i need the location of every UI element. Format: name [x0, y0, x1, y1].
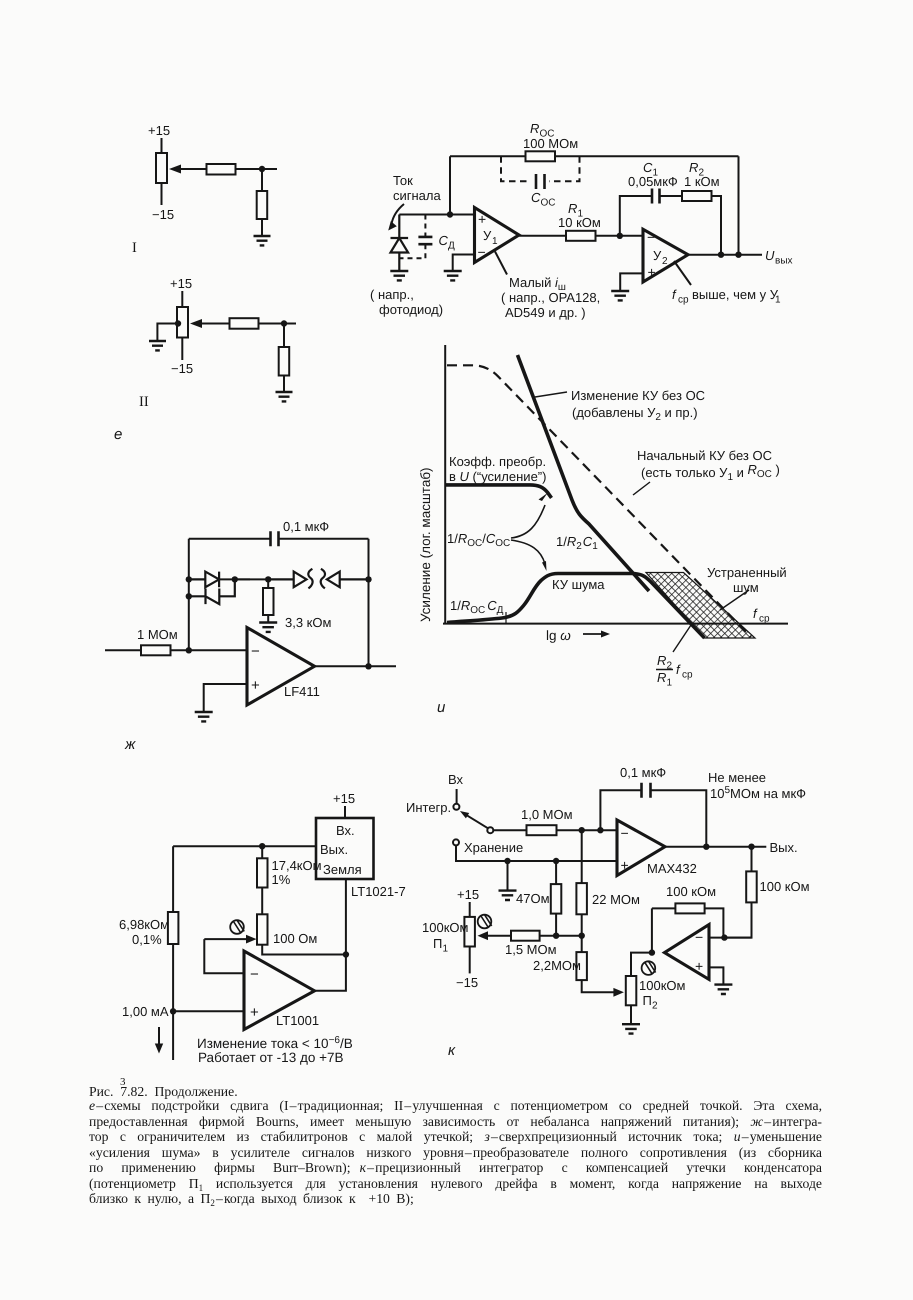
pointer line R2/R1 fcp [673, 625, 691, 652]
svg-text:Коэфф. преобр.: Коэфф. преобр. [449, 454, 546, 469]
svg-text:−: − [695, 929, 703, 945]
svg-text:Вых.: Вых. [320, 842, 348, 857]
switch arm with arrow [466, 815, 488, 828]
wire feedback cap up [600, 790, 641, 830]
wire pot bottom (e-II) [181, 338, 183, 361]
label Cd [439, 233, 456, 252]
resistor (e-I horizontal) [207, 164, 236, 175]
svg-text:3,3 кОм: 3,3 кОм [285, 615, 331, 630]
svg-text:−15: −15 [171, 361, 193, 376]
pointer line Nachalny [633, 482, 650, 495]
svg-text:C: C [531, 190, 541, 205]
svg-text:10 кОм: 10 кОм [558, 215, 601, 230]
svg-text:П: П [643, 993, 652, 1008]
LT1001 plus input [250, 1004, 259, 1021]
ground left (e-II) [149, 341, 166, 350]
wire P2 bottom to ground [630, 1005, 632, 1024]
resistor (e-II vertical) [279, 347, 290, 376]
node dot row 47 [553, 933, 559, 939]
svg-text:1%: 1% [272, 872, 291, 887]
cap top wire right [279, 538, 369, 540]
label Ne menee [708, 770, 806, 801]
wire tap to left ground (e-II) [157, 324, 178, 342]
svg-text:II: II [139, 394, 149, 410]
resistor 6.98 kOm [168, 912, 179, 944]
svg-text:+: + [251, 677, 260, 694]
wire +15 to pot I [161, 138, 163, 153]
svg-text:100кОм: 100кОм [422, 920, 468, 935]
svg-text:+: + [695, 958, 703, 974]
resistor 47 Om [551, 884, 562, 914]
label 0.1 mkF zh [283, 519, 329, 534]
wire C1 to R2 [660, 195, 683, 197]
svg-text:LF411: LF411 [284, 684, 320, 699]
wire resistor to node (e-II) [259, 323, 297, 325]
wire wiper to minus input [204, 939, 244, 973]
wire R2 down to output [712, 196, 722, 255]
wire 17.4k from node [261, 846, 263, 858]
svg-text:R: R [657, 653, 666, 668]
svg-text:Устраненный: Устраненный [707, 565, 787, 580]
node dot output cap join [703, 844, 709, 850]
pointer line Ustranenny [720, 590, 749, 610]
label Coc [531, 190, 556, 209]
wire node down (e-II) [283, 324, 285, 348]
svg-text:2: 2 [662, 256, 668, 267]
terminal Integr (open circle) [453, 804, 459, 810]
label k [448, 1042, 456, 1059]
left rail lower [172, 944, 174, 1060]
zener Z1 [268, 572, 306, 588]
right vertical feedback wire [368, 539, 370, 667]
svg-text:1,0 МОм: 1,0 МОм [521, 807, 573, 822]
node dot inverter output [649, 949, 655, 955]
svg-text:е: е [114, 426, 122, 443]
wire ground stub [507, 861, 509, 891]
input wire [105, 649, 141, 651]
ground photodiode [390, 271, 408, 280]
resistor R1 [566, 231, 596, 241]
node dot output 100k join [748, 844, 754, 850]
svg-text:Начальный КУ без ОС: Начальный КУ без ОС [637, 448, 772, 463]
voltage reference box LT1021-7 [316, 818, 374, 879]
knee tick [505, 612, 507, 624]
label i [437, 699, 446, 716]
svg-text:0,05мкФ: 0,05мкФ [628, 174, 678, 189]
svg-text:−: − [478, 244, 486, 260]
label +15 (P1) [457, 887, 479, 902]
wire to ground (e-II) [283, 376, 285, 393]
svg-text:ср: ср [678, 295, 689, 306]
ground U2 [611, 291, 629, 300]
inverter plus input [695, 958, 703, 974]
svg-text:I: I [132, 240, 137, 256]
svg-text:R: R [689, 160, 698, 175]
wire +15 to pot II [181, 291, 183, 307]
wire feedback up from output [651, 908, 653, 952]
potentiometer P2 [626, 976, 637, 1005]
label 1.0 MOm [521, 807, 573, 822]
wire 3.3k to ground [267, 615, 269, 623]
svg-text:+: + [648, 264, 656, 280]
svg-text:Работает от -13 до +7В: Работает от -13 до +7В [198, 1050, 343, 1065]
wire box Vyh to left rail [173, 845, 316, 847]
wiper arrow (e-II) [193, 323, 229, 325]
U3 minus input [251, 643, 260, 660]
label Izmenenie toka [197, 1035, 353, 1065]
wire MAX432 output [665, 846, 766, 848]
svg-text:+15: +15 [170, 276, 192, 291]
svg-text:1 кОм: 1 кОм [684, 174, 720, 189]
label +15 (e-II) [170, 276, 192, 291]
label C1 [628, 160, 678, 189]
mid tap node dot (e-II) [175, 320, 181, 326]
potentiometer P1 [464, 917, 475, 947]
wire R to MAX432 [557, 829, 618, 831]
wire 47Om top [555, 861, 557, 884]
wire P2 top to inverter output [631, 953, 652, 976]
svg-text:C: C [439, 233, 449, 248]
dashed open-loop gain curve [447, 365, 751, 637]
wire top rail right [555, 155, 739, 157]
node dot ground stub [504, 858, 510, 864]
svg-text:ср: ср [682, 670, 693, 681]
wire U1 output to R1 [519, 235, 566, 237]
svg-text:Ток: Ток [393, 173, 413, 188]
svg-text:−: − [647, 229, 655, 245]
svg-text:+15: +15 [148, 123, 170, 138]
resistor R2 [682, 191, 712, 201]
label Maliy ish [501, 275, 600, 320]
label U1 [483, 228, 498, 247]
pointer line fcp [674, 261, 691, 285]
ground 3.3k [259, 623, 277, 632]
svg-text:100 кОм: 100 кОм [760, 879, 810, 894]
svg-text:1: 1 [775, 295, 781, 306]
node dot 17.4k top [259, 843, 265, 849]
wire +15 to box [344, 806, 346, 818]
label Vyh [770, 840, 798, 855]
svg-text:1 МОм: 1 МОм [137, 627, 178, 642]
wire input node to opamp U1 [399, 214, 474, 216]
svg-text:Вых.: Вых. [770, 840, 798, 855]
label photodiode [370, 287, 443, 317]
label -15 (P1) [456, 975, 478, 990]
left rail upper [172, 846, 174, 912]
ground (inverter) [714, 985, 732, 994]
svg-text:Хранение: Хранение [464, 840, 523, 855]
wire 22MOm [581, 830, 583, 883]
svg-text:+: + [478, 211, 486, 227]
node dot inverter minus [721, 934, 727, 940]
node dot cap branch [597, 827, 603, 833]
dashed capacitor Cd [424, 215, 426, 237]
label 100kOm P2 [639, 978, 685, 1012]
label Ustranenny shum [707, 565, 787, 595]
wire feedback top left [652, 907, 676, 909]
label 1.5 MOm [505, 942, 557, 957]
svg-text:LT1001: LT1001 [276, 1013, 319, 1028]
label 0.1 mkF (k) [620, 765, 666, 780]
y axis [444, 345, 446, 624]
node dot diode lower stub [186, 593, 192, 599]
label R2 [684, 160, 720, 189]
node dot zemlya join [343, 951, 349, 957]
svg-text:в U (“усиление”): в U (“усиление”) [449, 469, 546, 484]
label KU shuma [552, 577, 605, 592]
svg-text:0,1 мкФ: 0,1 мкФ [283, 519, 329, 534]
node dot diode row left [186, 576, 192, 582]
svg-text:−: − [621, 825, 629, 841]
svg-text:У: У [483, 228, 492, 243]
wiper arrow P2 [614, 991, 616, 993]
node dot plus input [170, 1008, 176, 1014]
wire U2 output [688, 254, 762, 256]
label Integr [406, 800, 451, 815]
wire +15 to P1 [469, 902, 471, 917]
wire output down [751, 847, 753, 872]
label 1/R2C1 [556, 534, 598, 552]
label LT1021-7 [351, 884, 406, 899]
wire R1 to U2 [596, 235, 644, 237]
label U2 [653, 248, 668, 267]
svg-text:−15: −15 [456, 975, 478, 990]
dashed box left (Coc) [501, 156, 531, 181]
trimmer screw symbol (z) [230, 920, 244, 934]
wire inverter plus to ground [709, 967, 723, 984]
wire D1 to node [219, 578, 250, 580]
node dot zh input [186, 647, 192, 653]
svg-text:Вх: Вх [448, 772, 464, 787]
wire plus input [173, 1010, 244, 1012]
thick modified gain curve [518, 355, 650, 591]
wire 100k to inverter minus [724, 902, 751, 937]
node dot right vertical diode row [365, 576, 371, 582]
svg-text:( напр., OPA128,: ( напр., OPA128, [501, 290, 600, 305]
label LF411 [284, 684, 320, 699]
LT1001 minus input [250, 966, 259, 983]
svg-text:ОС: ОС [541, 198, 556, 209]
svg-text:AD549 и др. ): AD549 и др. ) [505, 305, 586, 320]
label 1.00 mA [122, 1004, 169, 1019]
wiper arrow (e-I) [172, 168, 206, 170]
svg-text:22 МОм: 22 МОм [592, 892, 640, 907]
svg-text:100 Ом: 100 Ом [273, 931, 317, 946]
wire feedback left vertical [449, 156, 451, 214]
wiper arrow P1 [486, 935, 511, 937]
wire 2.2M to P2 wiper [582, 980, 615, 992]
label 1/Roc/Coc [447, 531, 510, 549]
svg-text:0,1%: 0,1% [132, 932, 162, 947]
svg-text:У: У [653, 248, 662, 263]
wire pot bottom (e-I) [161, 183, 163, 205]
label Uvyh [765, 248, 793, 267]
wire cap to output [651, 790, 707, 847]
svg-text:1/RОС/CОС: 1/RОС/CОС [447, 531, 510, 549]
diode D1 (anode left) [189, 572, 219, 588]
svg-text:−: − [251, 643, 260, 660]
hatched region Ustranenny shum [646, 573, 755, 639]
label I [132, 240, 137, 256]
node dot 47 Om top [553, 858, 559, 864]
label Koeff preobr [449, 454, 546, 484]
label 100 kOm feedback [666, 884, 716, 899]
U1 plus input [478, 211, 486, 227]
ground (e-II) [276, 392, 293, 401]
svg-text:+15: +15 [333, 791, 355, 806]
wire 22MOm bottom [581, 914, 583, 952]
pointer line Maliy ish [495, 252, 507, 275]
MAX432 minus input [621, 825, 629, 841]
diode D2 (reversed, lower stub) [189, 579, 235, 604]
wiper arrow (z) [204, 938, 248, 940]
dashed wire Cd bottom [399, 244, 425, 258]
label 17.4kOm 1% [272, 858, 322, 887]
wire U3 output [315, 665, 397, 667]
svg-text:( напр.,: ( напр., [370, 287, 414, 302]
label 100 Om [273, 931, 317, 946]
current arrow down [158, 1027, 160, 1046]
wire resistor to U3 [171, 649, 248, 651]
wire zemlya pin down [345, 879, 347, 955]
label R1 [558, 201, 601, 230]
ground (P2) [622, 1024, 640, 1033]
label fcp axis [753, 606, 770, 625]
U2 plus input [648, 264, 656, 280]
label zh [124, 736, 136, 753]
label lg w [546, 628, 571, 643]
resistor 100 kOm feedback [675, 903, 704, 913]
svg-text:MAX432: MAX432 [647, 861, 697, 876]
svg-text:U: U [765, 248, 775, 263]
wire 47Om bottom [555, 914, 557, 936]
label MAX432 [647, 861, 697, 876]
svg-text:+: + [250, 1004, 259, 1021]
op-amp U2 [643, 229, 688, 282]
label 100kOm P1 [422, 920, 468, 955]
wire right vertical to output [315, 955, 346, 991]
op-amp U3 LF411 [247, 628, 315, 706]
label 22 MOm [592, 892, 640, 907]
node dot (e-I) [259, 166, 265, 172]
resistor 1.0 MOm [527, 825, 557, 835]
svg-text:1,5 МОм: 1,5 МОм [505, 942, 557, 957]
wire U3 plus to ground [204, 684, 247, 712]
label R2/R1 fcp [657, 653, 693, 689]
svg-text:вых: вых [775, 256, 793, 267]
label 1 MOm [137, 627, 178, 642]
wire feedback C1R2 up [620, 196, 652, 236]
svg-text:Изменение тока < 10−6/В: Изменение тока < 10−6/В [197, 1035, 353, 1051]
svg-text:100кОм: 100кОм [639, 978, 685, 993]
op-amp inverter (mirrored) [665, 925, 710, 980]
node row wire [540, 935, 582, 937]
thick transresistance level line [445, 485, 551, 498]
switch pole (open circle) [487, 827, 493, 833]
label Tok signala [393, 173, 441, 203]
label y axis Usilenie [418, 467, 433, 622]
svg-text:Усиление (лог. масштаб): Усиление (лог. масштаб) [418, 467, 433, 622]
label 3.3 kOm [285, 615, 331, 630]
svg-text:100 МОм: 100 МОм [523, 136, 578, 151]
svg-text:КУ шума: КУ шума [552, 577, 605, 592]
ground (k input) [499, 891, 517, 900]
node dot row 22 [579, 933, 585, 939]
label -15 (e-II) [171, 361, 193, 376]
capacitor 0.1uF zh [271, 531, 279, 546]
potentiometer (e-II) [177, 307, 188, 338]
svg-text:2: 2 [652, 1001, 658, 1012]
node dot input [447, 211, 453, 217]
svg-text:6,98кОм: 6,98кОм [119, 917, 169, 932]
capacitor Coc [536, 174, 545, 189]
label 100 kOm right [760, 879, 810, 894]
fraction bar R2/R1 [656, 669, 673, 671]
svg-text:сигнала: сигнала [393, 188, 441, 203]
photodiode D [391, 215, 409, 272]
svg-text:47Ом: 47Ом [516, 891, 550, 906]
resistor 1.5 MOm [511, 931, 540, 941]
svg-text:1/RОСCД: 1/RОСCД [450, 598, 504, 616]
svg-text:Изменение КУ без ОС: Изменение КУ без ОС [571, 388, 705, 403]
ground (e-I) [254, 236, 271, 245]
node dot after D1 [232, 576, 238, 582]
svg-text:−15: −15 [152, 207, 174, 222]
svg-text:2,2МОм: 2,2МОм [533, 958, 581, 973]
dashed box right (Coc) [549, 156, 580, 181]
capacitor 0.1 mkF (k) [642, 783, 651, 798]
label II [139, 394, 149, 410]
svg-text:f: f [676, 662, 681, 677]
wire 17.4k to pot [261, 888, 263, 915]
label 6.98kOm [119, 917, 169, 947]
svg-text:C: C [643, 160, 653, 175]
pin label Vh [336, 823, 355, 838]
wire U2 plus to ground [620, 273, 643, 291]
wire node down (e-I) [261, 169, 263, 191]
svg-text:П: П [433, 936, 442, 951]
label LT1001 [276, 1013, 319, 1028]
svg-text:R: R [568, 201, 577, 216]
MAX432 plus input [621, 857, 629, 873]
wire inverter minus [709, 937, 752, 939]
svg-text:100 кОм: 100 кОм [666, 884, 716, 899]
wire to ground (e-I) [261, 219, 263, 236]
resistor 22 MOm [576, 883, 587, 914]
label +15 (e-I) [148, 123, 170, 138]
zener Z2 bar [321, 569, 325, 589]
wire feedback to minus [705, 908, 724, 937]
wire U1 minus to ground [453, 255, 475, 272]
svg-text:17,4кОм: 17,4кОм [272, 858, 322, 873]
potentiometer 100 Om [257, 914, 268, 944]
svg-text:к: к [448, 1042, 456, 1059]
svg-text:Вх.: Вх. [336, 823, 355, 838]
wire P1 bottom [469, 947, 471, 974]
svg-text:−: − [250, 966, 259, 983]
x axis [443, 623, 788, 625]
svg-text:ж: ж [124, 736, 136, 753]
svg-text:ср: ср [759, 614, 770, 625]
wire diode row to resistor node [235, 578, 268, 580]
svg-text:выше, чем у У: выше, чем у У [692, 287, 779, 302]
svg-text:1/R2C1: 1/R2C1 [556, 534, 598, 552]
node dot rail join [735, 252, 741, 258]
capacitor C1 [652, 189, 660, 204]
ground U1 [444, 271, 462, 280]
label fcp vyshe [672, 287, 781, 306]
svg-text:105МОм на мкФ: 105МОм на мкФ [710, 785, 806, 801]
